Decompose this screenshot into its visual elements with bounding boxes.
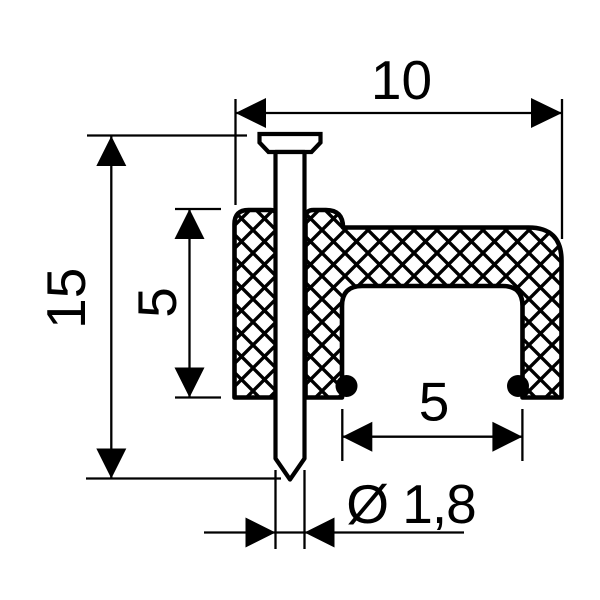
svg-text:5: 5 bbox=[419, 371, 450, 433]
svg-text:5: 5 bbox=[126, 287, 188, 318]
svg-text:Ø 1,8: Ø 1,8 bbox=[346, 473, 476, 535]
svg-text:10: 10 bbox=[371, 49, 432, 111]
svg-text:15: 15 bbox=[35, 268, 97, 329]
